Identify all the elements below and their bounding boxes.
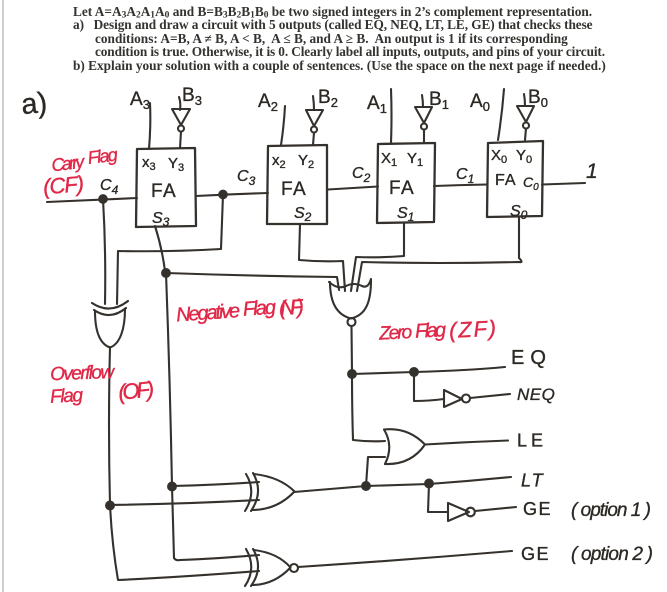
junction NF	[162, 269, 170, 277]
svg-text:B3: B3	[182, 85, 202, 108]
inverter NEQ	[444, 390, 470, 407]
junction on C3	[219, 191, 227, 199]
junction LT/OR	[362, 482, 370, 490]
wire OF to LT-XOR lower input	[110, 500, 259, 505]
wire S3 down to NF junction	[155, 226, 165, 271]
svg-text:FA: FA	[151, 181, 177, 202]
wire B2 stub	[313, 96, 314, 110]
wire NF to LT-XOR upper input	[172, 482, 259, 486]
XOR gate overflow (points down)	[92, 301, 128, 348]
svg-text:Flag: Flag	[414, 319, 446, 343]
wire ZF vertical	[350, 326, 353, 374]
svg-text:GE: GE	[523, 499, 552, 519]
full adder U0 (bit 0) box	[487, 141, 543, 217]
junction OF	[106, 502, 114, 510]
svg-text:B2: B2	[318, 87, 338, 110]
svg-text:(CF): (CF)	[42, 171, 85, 199]
wire carry C3 between U3 and U2	[196, 193, 268, 196]
wire B0 stub	[524, 94, 525, 106]
wire input A0	[498, 89, 504, 140]
svg-text:Y3: Y3	[168, 155, 184, 174]
svg-text:FA: FA	[389, 178, 415, 199]
junction ZF/EQ	[348, 370, 356, 378]
svg-text:FA: FA	[495, 172, 517, 189]
wire S2 to zero-NOR	[299, 224, 345, 291]
svg-text:1: 1	[586, 160, 598, 183]
wire B3 stub	[179, 97, 180, 110]
svg-text:FA: FA	[281, 179, 307, 200]
svg-text:Y0: Y0	[516, 147, 532, 166]
junction LT/GE1	[425, 480, 433, 488]
inverter GE option1	[448, 503, 475, 521]
svg-text:x2: x2	[272, 152, 286, 171]
XNOR gate GE option2 (points right)	[245, 549, 298, 586]
wire GE1 out	[475, 507, 516, 511]
wire carry-in = 1	[542, 183, 585, 185]
handwritten black labels	[20, 85, 653, 565]
svg-text:GE: GE	[521, 544, 550, 564]
svg-text:Y2: Y2	[298, 152, 314, 171]
svg-text:S2: S2	[294, 205, 312, 224]
svg-text:EQ: EQ	[511, 347, 552, 369]
svg-text:S1: S1	[397, 205, 414, 224]
wire OF down and to XNOR lower input	[110, 505, 259, 580]
NOR gate zero flag (points down)	[329, 279, 371, 326]
inverter on B0	[517, 106, 534, 129]
wire input A1	[390, 89, 393, 143]
wire LE out	[425, 441, 508, 445]
svg-text:S0: S0	[510, 203, 528, 222]
svg-text:C1: C1	[456, 166, 474, 186]
full adder U3 (bit 3) box	[136, 148, 196, 227]
wire OF vertical down	[109, 347, 110, 505]
wire NF down to XNOR upper input	[172, 486, 259, 560]
svg-text:LT: LT	[521, 471, 545, 491]
XOR gate LT (points right)	[245, 473, 295, 511]
svg-text:C2: C2	[352, 165, 371, 185]
wire carry C4 out to CF	[47, 198, 137, 202]
svg-text:S3: S3	[152, 210, 170, 229]
wire C4 branch down to overflow XOR	[103, 199, 105, 304]
svg-text:x3: x3	[142, 154, 156, 173]
svg-text:(NF): (NF)	[278, 296, 305, 321]
svg-text:LE: LE	[517, 431, 547, 451]
scan page edge	[2, 0, 4, 592]
svg-text:Overflow: Overflow	[50, 362, 116, 385]
svg-text:NEQ: NEQ	[517, 385, 555, 404]
svg-text:A1: A1	[367, 93, 387, 116]
svg-text:C3: C3	[237, 168, 256, 188]
wire S0 to zero-NOR	[357, 217, 522, 291]
svg-text:Zero: Zero	[378, 322, 413, 345]
wire B1 stub	[422, 95, 423, 107]
wire to NEQ inverter	[414, 372, 444, 401]
inverter on B2	[306, 110, 323, 133]
svg-text:Flag: Flag	[50, 385, 84, 408]
printed problem statement	[73, 4, 592, 21]
svg-text:C0: C0	[523, 174, 539, 193]
red handwritten flag labels	[42, 144, 497, 407]
svg-text:X0: X0	[491, 147, 507, 166]
OR gate LE	[384, 429, 425, 464]
svg-text:Flag: Flag	[87, 144, 119, 168]
svg-text:A3: A3	[130, 89, 150, 112]
svg-text:Negative: Negative	[175, 300, 240, 326]
wire S1 to zero-NOR	[351, 223, 404, 291]
svg-text:B1: B1	[429, 89, 449, 112]
inverter on B3	[172, 109, 190, 132]
wire carry C2 between U2 and U1	[328, 187, 378, 190]
junction EQ/NEQ	[410, 368, 418, 376]
svg-text:Y1: Y1	[407, 150, 423, 169]
svg-text:( option 2 ): ( option 2 )	[571, 544, 653, 565]
junction on C4	[99, 195, 107, 203]
inverter on B1	[415, 107, 432, 130]
wire inverter to Y2	[313, 133, 314, 146]
wire ZF down to LE-OR top input	[352, 374, 385, 441]
wire NEQ out	[470, 394, 510, 398]
svg-text:Flag: Flag	[242, 297, 276, 321]
wire inverter to Y1	[423, 130, 425, 144]
svg-text:A0: A0	[470, 91, 490, 114]
wire LT branch up to LE-OR bottom input	[366, 457, 385, 486]
wire input A2	[281, 106, 285, 145]
svg-text:A2: A2	[258, 91, 278, 114]
junction NF lower	[168, 483, 176, 491]
full adder U2 (bit 2) box	[267, 145, 327, 224]
wire LT main	[294, 477, 511, 492]
wire to GE1 inverter	[428, 484, 448, 512]
svg-text:( option 1 ): ( option 1 )	[571, 500, 651, 521]
svg-text:a): a)	[20, 87, 48, 121]
wire input A3	[149, 103, 150, 149]
svg-text:C4: C4	[100, 177, 119, 197]
svg-text:(ZF): (ZF)	[448, 316, 496, 343]
wire GE2 out	[298, 551, 512, 567]
wire carry C1 between U1 and U0	[434, 185, 487, 187]
svg-text:X1: X1	[381, 150, 397, 169]
wire NF to zero-NOR input	[166, 273, 339, 290]
wire inverter to Y0	[525, 129, 526, 141]
wire EQ	[352, 367, 505, 374]
full adder U1 (bit 1) box	[377, 143, 435, 223]
wire NF vertical down	[166, 273, 172, 486]
svg-text:B0: B0	[528, 87, 548, 110]
wire C3 branch down-left to overflow XOR	[117, 195, 223, 305]
svg-text:(OF): (OF)	[117, 376, 155, 405]
wire inverter to Y3	[180, 132, 181, 149]
